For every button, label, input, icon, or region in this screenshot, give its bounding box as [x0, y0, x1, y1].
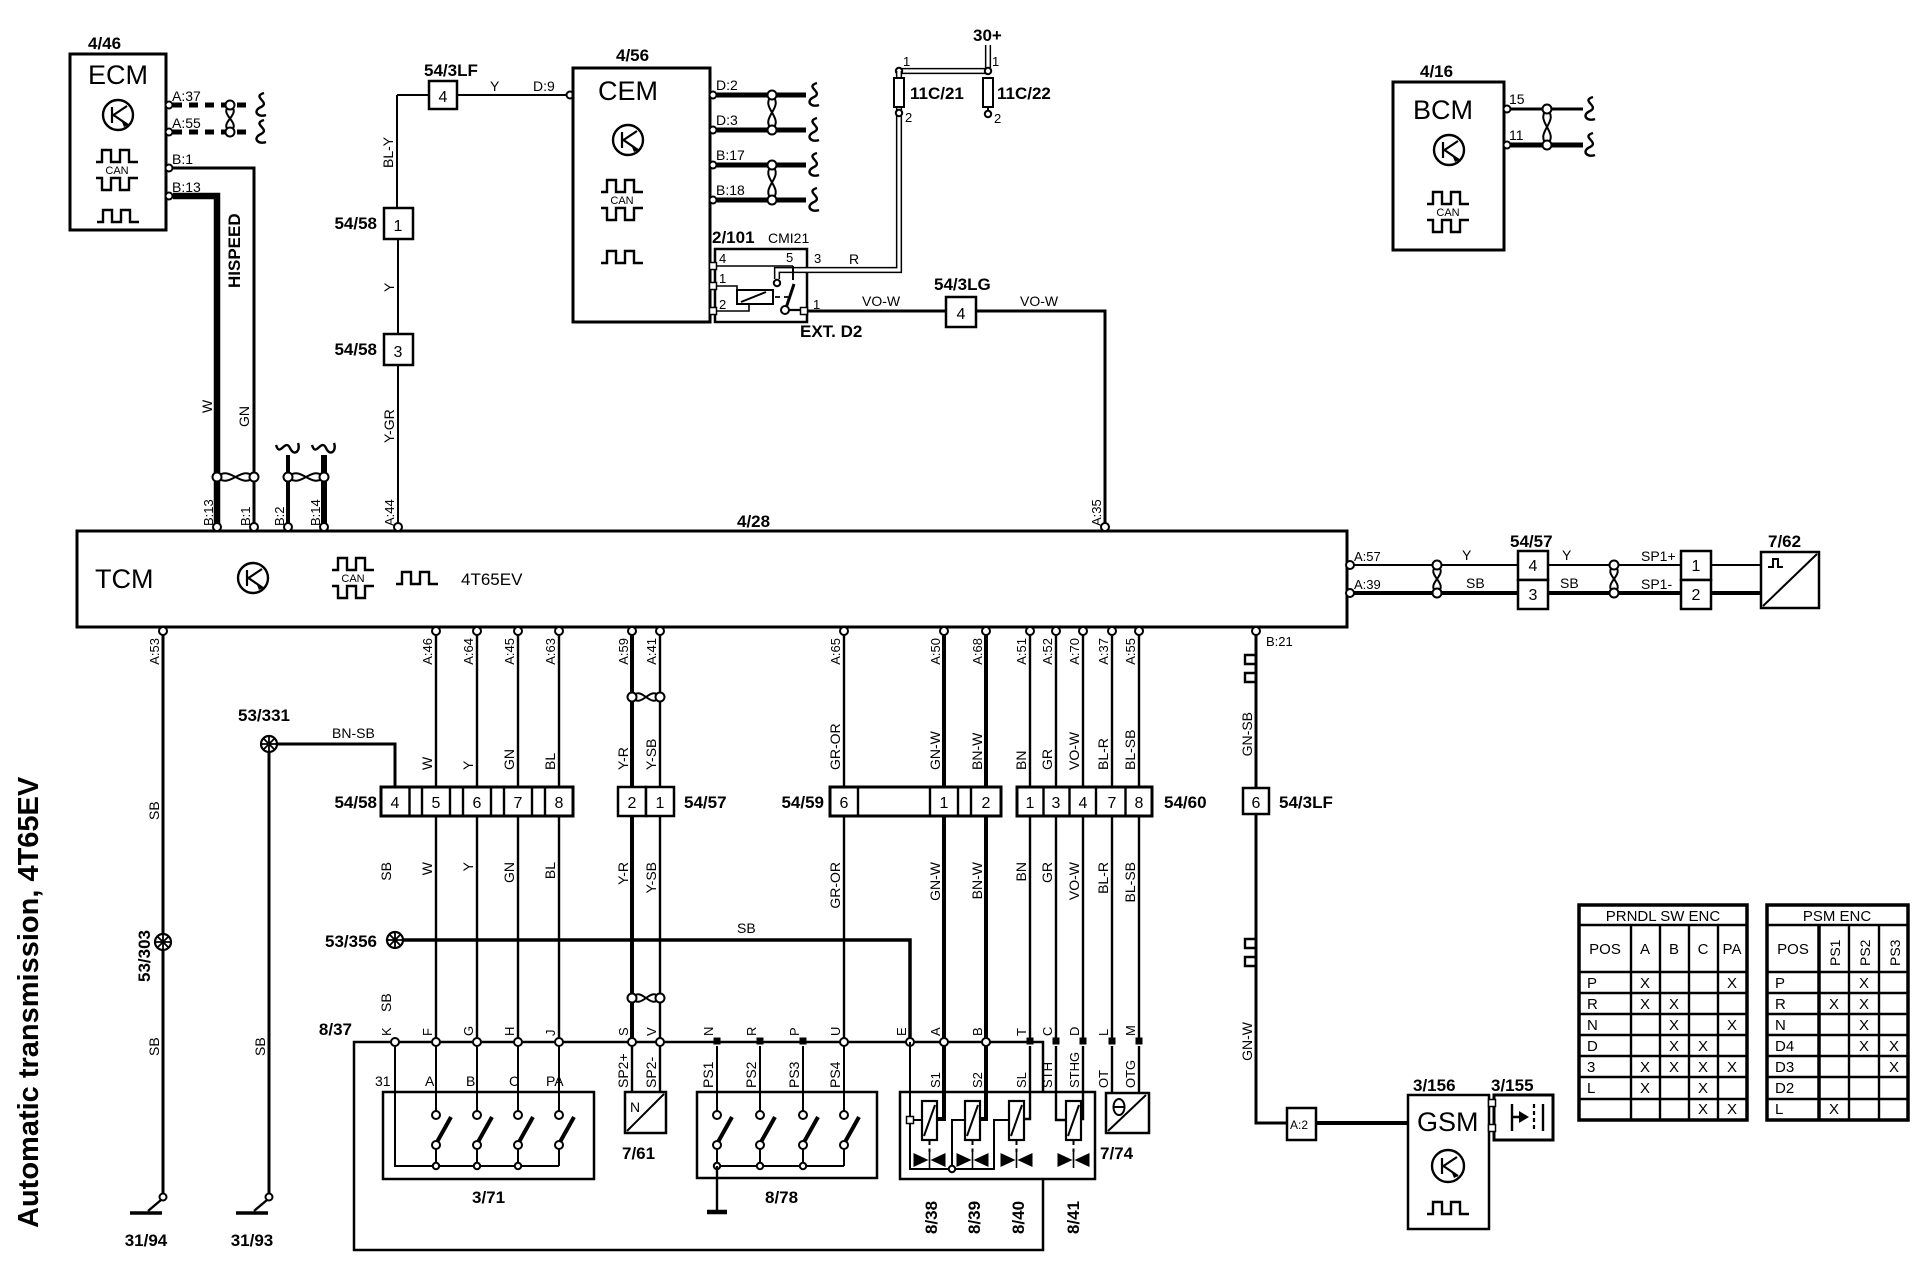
- svg-text:PRNDL SW ENC: PRNDL SW ENC: [1606, 908, 1721, 925]
- svg-text:2: 2: [905, 110, 912, 125]
- connector 54/57 pins 4,3: [1510, 532, 1553, 609]
- TCM pin A:70 node: [1079, 627, 1087, 635]
- svg-text:B:13: B:13: [172, 179, 201, 195]
- CEM pin D:3: [710, 112, 739, 134]
- wire B:2 stub to TCM: [276, 443, 299, 524]
- svg-text:1: 1: [1692, 558, 1701, 575]
- svg-text:8/38: 8/38: [922, 1201, 941, 1234]
- squiggle BCM 15: [1586, 97, 1595, 120]
- TCM pin A:51 node: [1026, 627, 1034, 635]
- svg-text:31: 31: [375, 1073, 391, 1089]
- svg-text:4: 4: [719, 251, 726, 266]
- svg-text:A:53: A:53: [147, 638, 162, 665]
- 8/37 pin E: [894, 1027, 914, 1046]
- svg-text:Y-R: Y-R: [615, 862, 631, 885]
- CEM control module 4/56: [573, 46, 710, 322]
- svg-text:SB: SB: [146, 801, 162, 820]
- 8/78 internal ground: [707, 1166, 727, 1212]
- svg-text:D:2: D:2: [716, 77, 738, 93]
- ECM pin A:37: [166, 88, 202, 109]
- node square E junction: [907, 1117, 914, 1124]
- svg-text:1: 1: [1026, 795, 1035, 812]
- switch PS2: [759, 1046, 761, 1163]
- rail junction: [474, 1163, 480, 1169]
- TCM pin A:68 node: [982, 627, 990, 635]
- svg-text:Y: Y: [1562, 547, 1572, 563]
- svg-text:POS: POS: [1589, 941, 1621, 958]
- relay coil: [716, 286, 789, 311]
- relay switch contact: [774, 266, 807, 314]
- svg-text:SB: SB: [1466, 575, 1485, 591]
- wire CEM B:18 stub: [717, 198, 806, 203]
- svg-text:BL-R: BL-R: [1095, 862, 1111, 894]
- wire B:13 ECM to TCM (CAN HISPEED): [173, 196, 217, 524]
- svg-text:A: A: [1640, 941, 1650, 958]
- svg-text:4/28: 4/28: [737, 512, 770, 531]
- svg-text:A:55: A:55: [1123, 638, 1138, 665]
- svg-text:CAN: CAN: [610, 195, 633, 207]
- svg-text:OT: OT: [1096, 1070, 1111, 1088]
- node fuse 11C/21 pin1: [896, 54, 910, 74]
- svg-text:SB: SB: [1560, 575, 1579, 591]
- switch contact C: [517, 1046, 519, 1163]
- svg-text:P: P: [1775, 975, 1785, 992]
- svg-text:W: W: [199, 399, 215, 413]
- wire SB splice to ground 31/93: [268, 752, 271, 1197]
- svg-text:2: 2: [719, 297, 726, 312]
- 8/37 pin C: [1040, 1027, 1060, 1045]
- 8/37 pin V: [644, 1027, 664, 1046]
- svg-text:4: 4: [1529, 558, 1538, 575]
- wire GR TCM A:52: [1055, 627, 1057, 1042]
- svg-text:GR: GR: [1039, 862, 1055, 883]
- table PRNDL SW ENC: [1579, 905, 1747, 1120]
- svg-text:V: V: [644, 1027, 659, 1036]
- rail junction: [800, 1163, 806, 1169]
- svg-text:15: 15: [1509, 91, 1525, 107]
- solenoid SL 8/40: [1001, 1046, 1033, 1234]
- relay 2/101 CMI21: [712, 228, 862, 341]
- relay pin squares: [710, 263, 717, 270]
- svg-text:A:45: A:45: [502, 638, 517, 665]
- svg-text:D: D: [1587, 1038, 1598, 1055]
- 8/37 pin A: [928, 1027, 948, 1046]
- svg-text:BN-W: BN-W: [969, 732, 985, 770]
- svg-text:A:46: A:46: [420, 638, 435, 665]
- svg-text:S1: S1: [928, 1072, 943, 1088]
- wire E feed inside solenoid block: [910, 1042, 1009, 1169]
- svg-text:X: X: [1889, 1059, 1899, 1076]
- TCM pin B:14: [308, 499, 328, 531]
- wire to 7/62 pin2: [1711, 591, 1761, 595]
- 8/37 pin D: [1067, 1027, 1087, 1045]
- svg-text:B:13: B:13: [201, 499, 216, 526]
- CEM pin D:2: [710, 77, 739, 99]
- wire SB splice to 8/37 pin E: [403, 940, 910, 1042]
- svg-text:7/61: 7/61: [622, 1144, 655, 1163]
- svg-text:X: X: [1727, 975, 1737, 992]
- twisted pair Y-R/Y-SB upper: [628, 693, 665, 702]
- svg-text:E: E: [894, 1027, 909, 1036]
- svg-text:Y: Y: [460, 760, 476, 770]
- speed sensor 7/62: [1761, 532, 1819, 608]
- svg-text:4T65EV: 4T65EV: [461, 570, 523, 589]
- square wave symbol on B:21 wire: [1245, 649, 1256, 687]
- svg-text:2/101: 2/101: [712, 228, 755, 247]
- svg-text:CEM: CEM: [598, 76, 658, 106]
- twisted pair symbol B:13/B:1: [213, 473, 259, 482]
- pressure switch block 8/78: [697, 1092, 877, 1207]
- BCM pin 15: [1504, 91, 1525, 113]
- svg-text:P: P: [1587, 975, 1597, 992]
- TCM pin B:2: [272, 506, 292, 531]
- fuse 11C/22: [983, 78, 1051, 112]
- svg-text:X: X: [1640, 1080, 1650, 1097]
- svg-text:BN-W: BN-W: [969, 861, 985, 899]
- svg-text:N: N: [630, 1099, 640, 1115]
- svg-text:SP2-: SP2-: [643, 1057, 659, 1088]
- svg-text:X: X: [1859, 1038, 1869, 1055]
- svg-text:SP1-: SP1-: [1641, 576, 1672, 592]
- svg-text:A: A: [928, 1027, 943, 1036]
- twisted pair B:17/B:18: [768, 161, 777, 205]
- svg-text:PA: PA: [546, 1073, 564, 1089]
- svg-text:4: 4: [957, 306, 966, 323]
- wire break squiggle A:37: [257, 93, 266, 116]
- wire GR-OR TCM A:65: [843, 627, 845, 1042]
- svg-text:Y-R: Y-R: [615, 747, 631, 770]
- svg-text:ECM: ECM: [88, 60, 148, 90]
- BCM pin 11: [1504, 127, 1524, 149]
- svg-text:GN-W: GN-W: [927, 730, 943, 770]
- svg-text:7/74: 7/74: [1100, 1144, 1134, 1163]
- TCM pin A:55 node: [1135, 627, 1143, 635]
- svg-text:2: 2: [994, 111, 1001, 126]
- svg-text:Y: Y: [460, 861, 476, 871]
- TCM pin A:65 node: [840, 627, 848, 635]
- svg-text:S2: S2: [970, 1072, 985, 1088]
- svg-text:EXT. D2: EXT. D2: [800, 322, 862, 341]
- svg-text:X: X: [1698, 1101, 1708, 1118]
- svg-text:SL: SL: [1014, 1072, 1029, 1088]
- svg-text:54/57: 54/57: [1510, 532, 1553, 551]
- connector 54/3LG pin 4: [934, 275, 991, 327]
- svg-text:R: R: [849, 251, 859, 267]
- svg-text:D: D: [1067, 1027, 1082, 1036]
- wire Y-SB TCM A:41: [659, 627, 661, 1042]
- TCM pin A:59 node: [628, 627, 636, 635]
- ECM pin B:13: [166, 179, 202, 200]
- svg-text:GN: GN: [501, 862, 517, 883]
- svg-text:R: R: [1775, 996, 1786, 1013]
- svg-text:J: J: [543, 1030, 558, 1037]
- svg-text:X: X: [1640, 1059, 1650, 1076]
- svg-text:N: N: [1587, 1017, 1598, 1034]
- gear selector module GSM 3/156: [1408, 1076, 1489, 1229]
- wire ECM A:55 dashed CAN stub: [173, 130, 252, 135]
- svg-text:D4: D4: [1775, 1038, 1794, 1055]
- svg-text:4: 4: [1079, 795, 1088, 812]
- node D:9 at CEM: [567, 92, 574, 99]
- wire ECM A:37 dashed CAN stub: [173, 103, 252, 108]
- svg-text:GN-W: GN-W: [927, 861, 943, 901]
- svg-text:1: 1: [656, 795, 665, 812]
- solenoid STH/STHG 8/41: [1056, 1046, 1090, 1234]
- svg-text:3/155: 3/155: [1491, 1076, 1534, 1095]
- svg-text:H: H: [502, 1027, 517, 1036]
- wire break squiggle A:55: [257, 120, 266, 143]
- svg-text:X: X: [1640, 975, 1650, 992]
- wire BCM 11 stub: [1511, 143, 1583, 148]
- sensor 7/61: [622, 1092, 666, 1163]
- svg-text:A:59: A:59: [616, 638, 631, 665]
- wire B:14 stub to TCM: [312, 443, 335, 524]
- svg-text:54/3LF: 54/3LF: [1279, 793, 1333, 812]
- svg-text:54/59: 54/59: [781, 793, 824, 812]
- wire A:2 to GSM: [1316, 1121, 1408, 1125]
- connector 54/58 row: [334, 787, 573, 816]
- connector pins 1,2 at 7/62: [1681, 551, 1711, 609]
- svg-text:1: 1: [394, 218, 403, 235]
- twisted pair symbol A:37/A:55: [226, 101, 235, 137]
- svg-text:8: 8: [1135, 795, 1144, 812]
- svg-text:6: 6: [473, 795, 482, 812]
- svg-text:3: 3: [1052, 795, 1061, 812]
- wires SP2+/SP2- to sensor 7/61: [632, 1046, 660, 1092]
- svg-text:BL-SB: BL-SB: [1122, 730, 1138, 770]
- wire SB 54/57 to SP1 connector: [1548, 591, 1681, 595]
- svg-text:D3: D3: [1775, 1059, 1794, 1076]
- svg-text:D2: D2: [1775, 1080, 1794, 1097]
- svg-text:SB: SB: [146, 1037, 162, 1056]
- svg-text:W: W: [419, 861, 435, 875]
- svg-text:BL: BL: [542, 862, 558, 879]
- wire Y between 54/58 pins: [397, 239, 399, 334]
- svg-text:VO-W: VO-W: [1020, 293, 1059, 309]
- svg-text:PS1: PS1: [700, 1061, 716, 1088]
- svg-text:OTG: OTG: [1123, 1060, 1138, 1088]
- svg-text:HISPEED: HISPEED: [225, 213, 244, 288]
- svg-text:B:21: B:21: [1266, 634, 1293, 649]
- connector 54/59 row: [781, 787, 1001, 816]
- svg-text:BN: BN: [1013, 751, 1029, 770]
- TCM pin B:21 node: [1252, 627, 1260, 635]
- svg-text:SP2+: SP2+: [615, 1053, 631, 1088]
- svg-text:L: L: [1587, 1080, 1595, 1097]
- svg-text:C: C: [1040, 1027, 1055, 1036]
- svg-text:54/60: 54/60: [1164, 793, 1207, 812]
- svg-text:CAN: CAN: [341, 573, 364, 585]
- connector 54/3LF pin 4: [424, 61, 478, 109]
- svg-text:L: L: [1096, 1029, 1111, 1036]
- wire BCM 15 stub: [1511, 108, 1583, 111]
- svg-text:GN-SB: GN-SB: [1239, 712, 1255, 756]
- svg-text:X: X: [1698, 1059, 1708, 1076]
- 8/37 pin R: [744, 1027, 764, 1045]
- svg-text:A:44: A:44: [382, 499, 397, 526]
- svg-text:X: X: [1698, 1080, 1708, 1097]
- svg-text:M: M: [1123, 1025, 1138, 1036]
- 8/37 pin G: [461, 1026, 481, 1046]
- transmission assembly 8/37: [319, 1020, 1043, 1250]
- wire Y from CEM D:9 to connector 54/3LF: [397, 95, 570, 208]
- svg-text:31/93: 31/93: [231, 1231, 274, 1250]
- svg-text:A:70: A:70: [1067, 638, 1082, 665]
- wire BN-SB splice to 54/58 pin 4: [277, 744, 395, 787]
- svg-text:X: X: [1727, 1017, 1737, 1034]
- connector 54/60 row: [1017, 787, 1207, 816]
- svg-text:53/356: 53/356: [325, 932, 377, 951]
- svg-text:PS2: PS2: [743, 1061, 759, 1088]
- svg-text:1: 1: [719, 271, 726, 286]
- svg-text:CMI21: CMI21: [768, 230, 809, 246]
- svg-text:11C/21: 11C/21: [910, 84, 964, 103]
- svg-text:5: 5: [786, 250, 793, 265]
- svg-text:54/57: 54/57: [684, 793, 727, 812]
- svg-text:A:55: A:55: [172, 115, 201, 131]
- svg-text:2: 2: [982, 795, 991, 812]
- svg-text:CAN: CAN: [105, 165, 128, 177]
- wire R fused feed down to relay pin 3 (double line): [807, 71, 899, 270]
- svg-text:VO-W: VO-W: [862, 293, 901, 309]
- svg-text:54/58: 54/58: [334, 340, 377, 359]
- svg-text:A: A: [425, 1073, 435, 1089]
- svg-text:K: K: [379, 1027, 394, 1036]
- svg-text:POS: POS: [1777, 941, 1809, 958]
- svg-text:Y: Y: [490, 78, 500, 94]
- TCM pin B:13: [201, 499, 221, 531]
- wire Y-R TCM A:59: [630, 627, 634, 1042]
- svg-text:A:51: A:51: [1014, 638, 1029, 665]
- svg-text:BL-R: BL-R: [1095, 738, 1111, 770]
- svg-text:7: 7: [514, 795, 523, 812]
- 8/37 pin K: [379, 1027, 399, 1046]
- TCM pin A:39: [1346, 577, 1381, 597]
- svg-text:C: C: [1698, 941, 1709, 958]
- svg-text:F: F: [420, 1028, 435, 1036]
- svg-text:B:2: B:2: [272, 506, 287, 526]
- TCM pin A:41 node: [656, 627, 664, 635]
- svg-text:N: N: [1775, 1017, 1786, 1034]
- svg-text:BL-SB: BL-SB: [1122, 862, 1138, 902]
- svg-text:PS1: PS1: [1827, 939, 1843, 966]
- svg-text:A:52: A:52: [1040, 638, 1055, 665]
- svg-text:A:50: A:50: [928, 638, 943, 665]
- svg-text:X: X: [1669, 1017, 1679, 1034]
- square wave symbol on GN-W wire: [1245, 933, 1256, 971]
- ECM pin A:55: [166, 115, 202, 136]
- connector 54/3LF pin 6: [1243, 788, 1333, 814]
- squiggle D:2: [810, 83, 819, 106]
- svg-text:SB: SB: [737, 920, 756, 936]
- svg-text:BN-SB: BN-SB: [332, 725, 375, 741]
- relay internal bus pin4-pin5: [715, 265, 793, 267]
- TCM pin A:53 node: [159, 627, 167, 635]
- svg-text:PSM ENC: PSM ENC: [1803, 908, 1872, 925]
- PRNDL switch 3/71: [383, 1092, 594, 1207]
- fuse 11C/21: [894, 78, 964, 107]
- 8/37 pin M: [1123, 1025, 1143, 1044]
- svg-text:4: 4: [391, 795, 400, 812]
- solenoid S1 8/38: [914, 1046, 946, 1234]
- svg-text:X: X: [1727, 1059, 1737, 1076]
- svg-text:X: X: [1859, 975, 1869, 992]
- svg-text:PS4: PS4: [827, 1061, 843, 1088]
- TCM pin A:52 node: [1052, 627, 1060, 635]
- squiggle BCM 11: [1586, 133, 1595, 156]
- connector 54/58 pin 3: [334, 334, 413, 365]
- twisted pair BCM 15/11: [1543, 105, 1552, 150]
- svg-text:STHG: STHG: [1067, 1052, 1082, 1088]
- svg-text:7: 7: [1108, 795, 1117, 812]
- svg-text:D:9: D:9: [533, 78, 555, 94]
- svg-text:A:41: A:41: [644, 638, 659, 665]
- svg-text:W: W: [419, 756, 435, 770]
- svg-text:GSM: GSM: [1417, 1107, 1479, 1137]
- svg-text:L: L: [1775, 1101, 1783, 1118]
- svg-text:B:17: B:17: [716, 147, 745, 163]
- svg-text:A:37: A:37: [1096, 638, 1111, 665]
- svg-text:8/40: 8/40: [1009, 1201, 1028, 1234]
- TCM pin A:46 node: [432, 627, 440, 635]
- svg-text:11: 11: [1509, 127, 1524, 143]
- fuse 11C/22 pin 2 node: [985, 111, 1001, 126]
- TCM pin A:44: [382, 499, 402, 531]
- svg-text:GN: GN: [236, 406, 252, 427]
- wire 31 rail: [395, 1046, 559, 1166]
- svg-text:S: S: [616, 1027, 631, 1036]
- svg-text:B:18: B:18: [716, 182, 745, 198]
- svg-text:VO-W: VO-W: [1066, 731, 1082, 770]
- svg-text:SP1+: SP1+: [1641, 548, 1676, 564]
- BCM control module 4/16: [1393, 62, 1504, 250]
- svg-text:T: T: [1014, 1028, 1029, 1036]
- rail junction: [714, 1163, 720, 1169]
- 8/37 pin P: [787, 1027, 807, 1044]
- svg-text:A:64: A:64: [461, 638, 476, 665]
- svg-text:Y: Y: [1462, 547, 1472, 563]
- twisted pair Y/SB: [1433, 561, 1442, 598]
- svg-text:B:14: B:14: [308, 499, 323, 526]
- svg-text:TCM: TCM: [95, 564, 153, 594]
- svg-text:5: 5: [432, 795, 441, 812]
- 8/37 pin B: [970, 1027, 990, 1046]
- svg-text:1: 1: [903, 54, 910, 69]
- junction on solenoid feed rail: [949, 1166, 955, 1172]
- svg-text:CAN: CAN: [1436, 207, 1459, 219]
- svg-text:X: X: [1859, 1017, 1869, 1034]
- svg-text:6: 6: [840, 795, 849, 812]
- wire BL-R TCM A:37: [1111, 627, 1113, 1042]
- TCM control module 4/28: [77, 512, 1347, 627]
- 8/37 pin T: [1014, 1028, 1034, 1045]
- svg-text:54/3LF: 54/3LF: [424, 61, 478, 80]
- svg-text:3: 3: [1587, 1059, 1595, 1076]
- switch PS1: [716, 1046, 718, 1163]
- TCM pin A:57: [1346, 549, 1381, 569]
- wire BN TCM A:51: [1029, 627, 1031, 1042]
- ground 31/93: [231, 1194, 274, 1251]
- svg-text:Y-GR: Y-GR: [381, 409, 397, 443]
- TCM pin A:35: [1089, 499, 1109, 531]
- svg-text:8/41: 8/41: [1064, 1201, 1083, 1234]
- 8/37 pin H: [502, 1027, 522, 1046]
- 8/37 pin U: [828, 1027, 848, 1046]
- CEM pin B:18: [710, 182, 746, 204]
- TCM pin A:63 node: [555, 627, 563, 635]
- wire CEM D:2 stub: [717, 93, 806, 98]
- TCM pin B:1: [238, 506, 258, 531]
